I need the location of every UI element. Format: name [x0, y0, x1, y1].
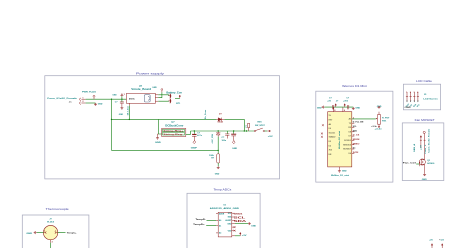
svg-text:3V3: 3V3 [329, 150, 332, 152]
svg-text:SDA/D2: SDA/D2 [329, 136, 336, 139]
svg-text:Fan_Ctrl: Fan_Ctrl [403, 161, 417, 164]
svg-text:GNDP: GNDP [191, 148, 198, 150]
svg-text:Temp ADCs: Temp ADCs [214, 187, 232, 191]
svg-text:Fan_1: Fan_1 [425, 145, 427, 154]
svg-text:↗GND: ↗GND [404, 106, 411, 109]
svg-text:GND: GND [251, 226, 256, 228]
svg-text:WeMos D1 mini: WeMos D1 mini [339, 130, 341, 149]
svg-text:A3: A3 [219, 232, 221, 235]
svg-text:Wemos D1 Mini: Wemos D1 Mini [342, 84, 367, 88]
svg-text:GND1: GND1 [234, 213, 244, 215]
svg-text:ADDR: ADDR [219, 212, 225, 215]
svg-text:SCK: SCK [353, 152, 359, 154]
svg-text:DCBuckConv: DCBuckConv [165, 125, 184, 127]
svg-text:D_CS: D_CS [353, 135, 360, 137]
svg-text:D8: D8 [349, 131, 351, 133]
svg-text:TempD+: TempD+ [193, 224, 206, 226]
svg-text:LCD Cable: LCD Cable [416, 79, 432, 83]
svg-text:D_Fan_EN: D_Fan_EN [353, 122, 364, 124]
svg-text:String-Reg-: String-Reg- [163, 133, 184, 136]
svg-text:+3V3: +3V3 [343, 100, 349, 102]
svg-text:Conn_01x02_Female: Conn_01x02_Female [429, 129, 431, 153]
svg-text:DOC: DOC [129, 99, 136, 101]
svg-text:+3.3v: +3.3v [375, 128, 383, 130]
svg-text:Vmote_Board: Vmote_Board [131, 88, 152, 91]
svg-text:D7: D7 [349, 136, 351, 138]
svg-text:Conn_01x02_Female: Conn_01x02_Female [47, 98, 78, 100]
svg-text:D0: D0 [329, 128, 331, 130]
svg-text:4.7u: 4.7u [197, 134, 203, 137]
svg-text:D4: D4 [349, 153, 351, 155]
svg-text:GND: GND [98, 104, 103, 106]
svg-text:D3: D3 [329, 141, 331, 143]
svg-text:MISO/D6: MISO/D6 [343, 144, 351, 146]
svg-text:LCD Screen: LCD Screen [423, 98, 438, 101]
svg-text:R_POT: R_POT [382, 117, 390, 119]
svg-text:+5V_SW: +5V_SW [212, 134, 214, 144]
svg-text:1S_LiIon: 1S_LiIon [128, 105, 130, 115]
svg-text:GND: GND [155, 142, 161, 144]
svg-text:FAN_A: FAN_A [413, 143, 416, 152]
svg-text:SW_SPST: SW_SPST [255, 125, 265, 127]
svg-text:MOSI/D7: MOSI/D7 [343, 149, 351, 151]
svg-text:A1: A1 [219, 224, 221, 227]
svg-text:SDA: SDA [353, 129, 357, 132]
svg-text:D4: D4 [329, 145, 331, 147]
svg-text:Thermocouple: Thermocouple [46, 207, 69, 211]
svg-text:GND: GND [422, 179, 427, 181]
svg-text:MOSI: MOSI [353, 139, 360, 141]
svg-text:Power supply: Power supply [136, 71, 165, 75]
svg-text:+5V: +5V [327, 100, 331, 102]
svg-text:ADS1115_ADD0_GND: ADS1115_ADD0_GND [210, 207, 240, 210]
svg-text:SCL: SCL [353, 126, 357, 128]
svg-text:GND: GND [227, 223, 232, 225]
svg-text:A0: A0 [349, 118, 351, 121]
svg-text:GND: GND [152, 87, 157, 89]
svg-text:SCK/D5: SCK/D5 [344, 140, 351, 142]
svg-text:GND: GND [232, 148, 237, 150]
svg-text:SS34: SS34 [217, 121, 223, 124]
svg-text:SCL/D1: SCL/D1 [329, 132, 336, 134]
svg-text:TempC+: TempC+ [67, 232, 78, 234]
svg-text:GND: GND [317, 108, 322, 110]
svg-text:Battery_Con: Battery_Con [166, 92, 182, 95]
svg-text:GND: GND [355, 108, 360, 110]
svg-text:K-E3: K-E3 [47, 222, 55, 224]
svg-text:PWR_FLAG: PWR_FLAG [82, 91, 96, 94]
svg-text:Fan MOSFET: Fan MOSFET [415, 118, 435, 122]
svg-text:GND: GND [112, 94, 117, 96]
svg-text:A0: A0 [219, 219, 221, 222]
svg-text:AO3400: AO3400 [427, 162, 435, 165]
svg-text:GND: GND [119, 114, 124, 116]
svg-text:+5V: +5V [429, 240, 433, 242]
svg-text:+3V3: +3V3 [441, 240, 445, 242]
svg-text:GND: GND [342, 171, 347, 173]
svg-text:A0: A0 [329, 123, 331, 126]
svg-text:TempD-: TempD- [195, 219, 206, 221]
svg-text:GND: GND [215, 174, 220, 176]
svg-text:+5V: +5V [268, 136, 274, 138]
svg-text:MISO: MISO [353, 143, 360, 145]
svg-text:100n: 100n [222, 140, 227, 142]
svg-text:+3V: +3V [242, 235, 247, 237]
svg-text:B+_Fuse: B+_Fuse [205, 109, 207, 119]
svg-text:ALERT: ALERT [225, 219, 232, 222]
svg-text:WeMos_D1_mini: WeMos_D1_mini [331, 175, 349, 177]
svg-text:SDA: SDA [234, 219, 247, 223]
svg-text:String-Reg+: String-Reg+ [163, 130, 184, 133]
svg-text:GND: GND [26, 233, 32, 235]
